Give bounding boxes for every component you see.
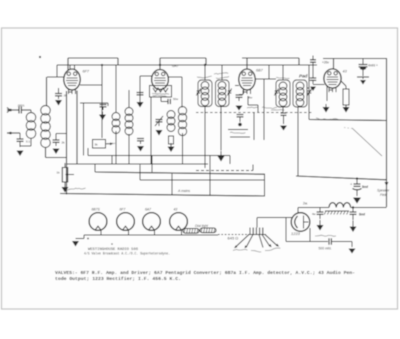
speck 3 [111, 243, 113, 245]
wire: L1 bottom return [20, 138, 31, 146]
wire: dashed return y170 [196, 170, 253, 172]
svg-text:6A7: 6A7 [172, 64, 180, 68]
wire: bus vertical x210 [209, 156, 211, 196]
wire: V1 grid down to ant coil [46, 77, 48, 106]
svg-text:+26v: +26v [322, 61, 329, 65]
coil L7 IFT1 primary [201, 82, 209, 106]
wire: bus vertical x88 [87, 148, 89, 156]
caption: set name [88, 248, 139, 252]
trimmer on IFT1 secondary [227, 89, 231, 96]
junction dot bus/IFT1 pri [204, 64, 206, 66]
wire: IFT1 pri bottom lead [204, 107, 206, 169]
label 2w [303, 202, 308, 206]
wire: V1 cathode corner [80, 103, 108, 106]
wire: dashed stub up x253 [252, 165, 254, 171]
ground: heater chain end [72, 241, 79, 247]
wire: bus vertical x230 [229, 156, 231, 165]
capacitor: 8mf field electrolytic [350, 179, 362, 196]
label 8mf field [362, 185, 369, 189]
trimmer on IFT2 primary [274, 89, 278, 96]
wire: fan feed [258, 217, 287, 219]
svg-text:6B7S: 6B7S [92, 208, 101, 212]
label 4mfd+ [368, 64, 378, 68]
resistor: V4 bias [343, 89, 349, 105]
ground: bias resistor bottom [343, 105, 350, 113]
capacitor: V3 cathode [236, 90, 244, 101]
wire: IFT1 sec top lead [221, 65, 223, 80]
coil L5 osc grid [167, 111, 175, 132]
capacitor: osc grid 50w [161, 97, 171, 104]
wire: rectifier output line [298, 207, 329, 209]
ground: below IFT2 pri cap [280, 126, 287, 131]
wire: grid stub [307, 87, 309, 89]
wire: fan leg 5 [265, 235, 279, 247]
wire: V1 top cap leads [70, 65, 75, 70]
terminal E (earth) [7, 132, 12, 135]
resistor: osc grid leak [169, 136, 174, 144]
svg-text:8mf: 8mf [359, 213, 366, 217]
svg-text:Field: Field [380, 193, 387, 197]
svg-text:VALVES:- 6F7 R.F. Amp. and Dri: VALVES:- 6F7 R.F. Amp. and Driver; 6A7 P… [55, 270, 355, 276]
wire: socket riser 3 [154, 230, 156, 235]
wire: V1 cathode drop x83.5 [83, 103, 85, 156]
choke core hatch [324, 211, 349, 215]
coil L11 filter choke [329, 203, 351, 208]
svg-text:WESTINGHOUSE RADIO 506: WESTINGHOUSE RADIO 506 [88, 248, 139, 252]
ground: osc grid leak [168, 143, 175, 152]
ground: x140 lower [137, 146, 144, 152]
label V2 6A7 [172, 64, 180, 68]
wire: heater return after cap [331, 241, 352, 243]
terminal A (aerial) [7, 108, 12, 113]
wire: V2 heater lead down [150, 97, 152, 164]
tube base socket 43 [170, 213, 188, 231]
wire: crease diagonal [344, 128, 382, 157]
junction dot field line [356, 177, 358, 179]
label base 43 [174, 208, 178, 212]
wire: heater return bottom [286, 241, 328, 243]
wire: cap to ant coil [22, 110, 31, 113]
svg-text:6B7: 6B7 [256, 69, 264, 73]
label V1 6F7 [83, 70, 90, 74]
wire: AVC bus sloped [95, 172, 265, 174]
svg-text:4/5 Valve Broadcast A.C./D.C.: 4/5 Valve Broadcast A.C./D.C. Superheter… [84, 252, 170, 257]
wire: aerial to series cap [11, 109, 19, 111]
label fan tap voltages [233, 248, 280, 252]
wire: bus riser x112 [111, 156, 113, 165]
wire: right B+ drop [386, 59, 388, 208]
IFT1 primary shield can [198, 80, 212, 107]
wire: bus vertical x140 [139, 165, 141, 180]
node +26v label [322, 61, 329, 65]
label volume control [66, 188, 86, 190]
tube base socket 6F7 [117, 213, 135, 231]
junction dot bus/V2 [159, 64, 161, 66]
label 50w [173, 97, 179, 101]
svg-text:1223: 1223 [291, 231, 301, 236]
wire: arrowhead on right bus [385, 182, 389, 186]
wire: socket riser 2 [128, 230, 130, 235]
svg-text:Speaker: Speaker [377, 189, 390, 193]
wire: plate drop x264 [263, 79, 265, 140]
capacitor C: 4mfd electrolytic top right [359, 59, 368, 77]
wire: x254 drop [253, 113, 255, 141]
label Speaker Field [377, 189, 390, 198]
label IFT2 freq [276, 78, 290, 79]
wire: V2 plate right [168, 76, 182, 78]
coil L6 osc anode [178, 107, 186, 136]
wire: L3 bottom lead [115, 131, 117, 164]
label 645 ohm [228, 235, 239, 240]
svg-text:4mfd +: 4mfd + [368, 64, 378, 68]
capacitor: x140 lower unit [137, 139, 144, 145]
wire: bus stub x269 [268, 65, 270, 79]
svg-text:8mf: 8mf [362, 185, 369, 189]
wire: fan leg 1 [234, 235, 249, 249]
wire: IFT2 sec bottom long drop [297, 107, 299, 176]
label 3k-R [106, 142, 115, 145]
junction dot choke output [352, 206, 354, 208]
label 200 ohm [247, 107, 277, 109]
wire: V3 jumper right drop [298, 58, 300, 65]
coil L3 RF primary [112, 113, 120, 134]
wire: L4 top lead [128, 90, 130, 108]
wire: stub x56 to heater [56, 133, 67, 135]
capacitor: V4 grid coupling [310, 65, 325, 85]
wire: left drop to heater line [285, 218, 287, 242]
ground: field cap [353, 198, 361, 204]
ground: filter input cap [317, 220, 324, 231]
ground: V4 cathode [323, 104, 330, 113]
wire: bus drop left of V1 [56, 65, 58, 77]
wire: bottom line to right bus [309, 120, 387, 121]
wire: mains line bottom [60, 194, 265, 197]
heater box below V2 [150, 86, 172, 98]
label V4 43 [343, 70, 348, 74]
wire: fan leg 3 [259, 235, 263, 248]
label base 6F7 [120, 208, 126, 212]
svg-text:6F7: 6F7 [120, 208, 126, 212]
label Dial light [195, 224, 209, 228]
label 25k [63, 94, 68, 98]
wire: fan leg 2 [245, 235, 254, 249]
trimmer on IFT2 secondary [307, 89, 311, 96]
label 8w [249, 96, 254, 100]
wire: grid-cap jumper over V2 [160, 57, 206, 59]
svg-text:0.1: 0.1 [26, 140, 31, 144]
wire: choke to B+ bus [351, 207, 387, 209]
wire: L6 bottom lead [182, 133, 184, 164]
resistor: AVC feed 3k [93, 140, 106, 149]
wire: V3 grid left [235, 85, 239, 87]
svg-text:645 Ω: 645 Ω [228, 235, 239, 240]
wire: L3 top lead [115, 65, 117, 113]
label .0001 on aerial cap [17, 103, 25, 107]
wire: stub y129 [228, 129, 248, 131]
wire: V4 anode top lead [333, 59, 335, 69]
capacitor: V1 cathode bypass [100, 105, 107, 111]
ground: IFT1 secondary return [218, 151, 225, 162]
wire: rectifier bottom drop [309, 228, 311, 242]
wire: field feed line [296, 176, 387, 180]
wire: rectifier anode top [297, 208, 299, 214]
capacitor: AVC filter at x140 [137, 76, 144, 95]
wire: V1 plate drop [101, 65, 103, 138]
capacitor: below IFT2 pri [281, 107, 287, 124]
capacitor: cathode bypass x56 [53, 134, 60, 147]
wire: V1 heater lead B down [76, 91, 78, 165]
ground: filter output cap [350, 221, 357, 233]
label V3 6B7 [256, 69, 264, 73]
coil L8 IFT1 secondary [218, 82, 226, 106]
IFT2 primary shield can [276, 80, 290, 107]
svg-text:2w.: 2w. [303, 202, 308, 206]
coil L1 aerial primary [26, 113, 36, 139]
wire: dotted link to fan [218, 234, 248, 236]
wire: bus riser x95 [94, 164, 96, 172]
wire: bus vertical x172 [171, 174, 173, 195]
capacitor: aerial series .0001 [19, 107, 21, 114]
svg-text:Dial light: Dial light [195, 224, 209, 228]
wire: V1 grid line left [47, 76, 64, 78]
wire: bus y164 [66, 163, 208, 165]
label vol [57, 171, 61, 175]
wire: V2 jumper right drop [205, 58, 207, 65]
label filter cap w [312, 212, 317, 216]
label about [315, 235, 336, 236]
junction dot bus/x102 [101, 64, 103, 66]
label 262kc below [271, 109, 284, 112]
ground: screen bypass [55, 100, 62, 106]
wire: V3 jumper drop to tube [246, 58, 248, 69]
label IFT1 freq [197, 76, 212, 78]
wiper arrow on volume control [65, 173, 74, 176]
wire: L4 bottom lead [128, 134, 130, 164]
svg-text:43: 43 [174, 208, 178, 212]
wire: IFT1 pri top lead [204, 65, 206, 80]
resistor: volume control [62, 168, 67, 183]
coil L9 IFT2 primary [279, 82, 287, 106]
ground: heater return [349, 249, 356, 254]
wire: V1 heater lead A down [66, 91, 68, 195]
svg-text:1k: 1k [57, 171, 61, 175]
label base 6A7 [145, 208, 151, 212]
wire: V1 plate line right [80, 84, 102, 86]
svg-text:2k: 2k [62, 141, 66, 145]
coil L4 RF secondary [125, 108, 133, 136]
wire: main HT bus y65 [57, 64, 317, 66]
tube V4 43 envelope [324, 69, 341, 92]
wire: IFT2 pri top lead [282, 65, 284, 80]
wire: V3 diode corner [248, 96, 258, 112]
label base 6B7S [92, 208, 101, 212]
caption: valves line 1 [55, 270, 355, 276]
wire: bus y155.5 [88, 155, 230, 157]
capacitor: series unit at x313 [310, 56, 316, 66]
trimmer on IFT1 primary [196, 89, 200, 96]
svg-text:.0001: .0001 [17, 103, 25, 107]
resistor: ballast strip [183, 228, 216, 233]
svg-text:3k: 3k [95, 143, 99, 147]
label 1223 [291, 231, 301, 236]
tube V1 6F7 envelope [64, 69, 80, 94]
label 500 mfd [319, 247, 332, 251]
tube base socket 6B7 [89, 213, 107, 231]
wire: socket chain left tail [76, 235, 96, 239]
label Pre-select [214, 73, 229, 79]
ground: earth terminal [17, 151, 24, 157]
IFT1 secondary shield can [216, 80, 230, 107]
capacitor: screen bypass near V1 [55, 88, 62, 99]
wire: bus riser x152 [151, 156, 153, 173]
wire: rectifier cathode left [286, 217, 292, 219]
wire: bias resistor top [341, 81, 346, 89]
wire: grid-cap jumper over V1 [68, 57, 118, 59]
capacitor: osc padder variable [155, 116, 163, 126]
wire junction V1 jumper left drop [67, 58, 69, 70]
svg-text:6F7: 6F7 [83, 70, 90, 74]
tube V2 6A7 envelope [152, 70, 169, 90]
ground: V3 cathode [236, 106, 243, 111]
svg-text:Pad: Pad [299, 74, 308, 79]
tube V5 1223 rectifier [291, 213, 310, 232]
ground: osc padder [156, 130, 163, 136]
wire: osc coil top lead [181, 77, 183, 108]
ground: below 4mfd cap [357, 77, 369, 85]
IFT2 secondary shield can [293, 80, 307, 107]
wire: V2 jumper drop to tube [159, 58, 161, 70]
wire: V2 grid left [140, 75, 152, 77]
svg-text:tode Output; 1223 Rectifier; I: tode Output; 1223 Rectifier; I.F. 456.5 … [55, 276, 181, 282]
label low volts [316, 118, 338, 120]
tube V3 6B7 envelope [239, 69, 255, 94]
capacitor: earth bypass 0.1 [17, 133, 24, 147]
label volts [230, 132, 245, 133]
label 0.1 [26, 140, 31, 144]
wire: socket riser 1 [100, 230, 102, 235]
wire: vertical x264 to mains [264, 174, 266, 196]
label A mains [177, 189, 190, 193]
wire: fan leg 4 [262, 235, 272, 248]
wire: corner down x352 [351, 242, 353, 248]
capacitor: filter output 8mf [350, 208, 357, 221]
wire: IFT1 sec bottom lead [220, 107, 222, 151]
label 2k at x61 [62, 141, 66, 145]
caption: valves line 2 [55, 276, 181, 282]
label Pad [299, 74, 308, 79]
speck 2 [87, 238, 89, 240]
wire: stub y137 [230, 136, 250, 138]
ground: V4 grid leak [310, 87, 316, 92]
ground: AVC filter [137, 93, 144, 108]
wire: earth lead [11, 132, 20, 134]
wire junction V1 jumper right drop [117, 58, 119, 65]
caption: set type [84, 252, 170, 257]
resistor: line-cord taps comb [248, 218, 266, 235]
wire: V3 plate right [255, 78, 276, 80]
wire: vol control top lead [64, 163, 66, 168]
svg-text:500 mfd.: 500 mfd. [319, 247, 332, 251]
wire: V4 cathode down [326, 87, 328, 102]
wire: L2 bottom down [46, 147, 67, 158]
ground: V1 cathode [99, 112, 106, 121]
capacitor: detector load [237, 115, 244, 127]
label 8mf filter [359, 213, 366, 217]
capacitor: filter input 8mf [317, 208, 324, 220]
wire: left feed x309 [308, 65, 310, 120]
wire: grid-cap jumper over V3 [242, 57, 299, 59]
ground: cathode bypass x56 [53, 149, 60, 155]
svg-text:A mains: A mains [177, 189, 190, 193]
svg-text:6A7: 6A7 [145, 208, 151, 212]
coil L2 aerial secondary [41, 106, 51, 148]
ground: volume control bottom [62, 182, 69, 193]
wire: socket heater chain [95, 234, 218, 236]
capacitor: heater line series [329, 238, 331, 244]
speck [39, 56, 41, 58]
wire: B+ line to output stage [323, 58, 387, 60]
wire: bus y180 segment [140, 179, 264, 181]
wire: dashed chassis line [196, 112, 312, 114]
coil L10 IFT2 secondary [296, 82, 304, 106]
wire: socket riser 4 [181, 230, 183, 235]
tube base socket 6A7 [143, 213, 161, 231]
